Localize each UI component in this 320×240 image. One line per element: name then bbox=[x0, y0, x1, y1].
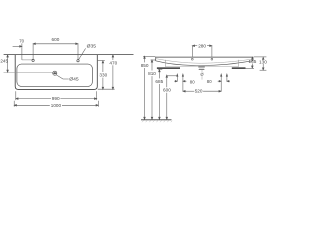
dimension 520 bbox=[183, 90, 221, 92]
svg-text:Ø35: Ø35 bbox=[87, 44, 97, 49]
svg-text:520: 520 bbox=[195, 89, 203, 94]
dimension 600 (height) bbox=[166, 75, 177, 119]
centerline wall-to-drain (245 reference) bbox=[4, 71, 53, 73]
svg-text:330: 330 bbox=[99, 73, 107, 78]
basin outer outline (plan view) bbox=[15, 55, 97, 90]
svg-text:600: 600 bbox=[163, 88, 171, 93]
drain symbol Ø (front view) bbox=[201, 73, 204, 76]
deck shelf line (plan view) bbox=[22, 59, 32, 61]
mounting bracket right (front view) bbox=[232, 67, 246, 69]
basin inner profile (front view) bbox=[156, 59, 253, 64]
dimension 990 (plan bottom) bbox=[16, 91, 97, 100]
dimension 130 (front right) bbox=[254, 57, 267, 70]
basin rim line (front view) bbox=[156, 56, 253, 58]
svg-text:80: 80 bbox=[207, 79, 212, 84]
dimension 330 (plan right) bbox=[98, 61, 105, 90]
back body right edge (front view) bbox=[238, 60, 240, 67]
svg-text:470: 470 bbox=[109, 60, 117, 65]
drain Ø45 (plan) bbox=[53, 71, 57, 75]
dimension 245 (left vertical) bbox=[7, 55, 9, 73]
valve position arrows (4 pipe stubs) bbox=[177, 74, 228, 91]
basin inner bowl (plan view) bbox=[17, 64, 93, 86]
dimension 470 (plan right) bbox=[98, 55, 115, 90]
svg-text:245: 245 bbox=[0, 58, 8, 63]
basin underside silhouette (front view) bbox=[156, 61, 253, 66]
wall line (plan view) bbox=[4, 54, 134, 56]
dimension 80 left bbox=[174, 80, 186, 82]
back body bottom edge (front view) bbox=[165, 66, 238, 68]
dimension 850 (height) bbox=[143, 56, 156, 119]
svg-text:990: 990 bbox=[52, 96, 60, 101]
svg-text:810: 810 bbox=[148, 71, 156, 76]
svg-text:70: 70 bbox=[19, 38, 24, 43]
mounting bracket left (front view) bbox=[157, 67, 180, 69]
floor line bbox=[141, 119, 172, 121]
tap hole right Ø35 (plan) bbox=[77, 60, 79, 62]
dimension 810 (height) bbox=[151, 60, 156, 120]
dimension 80 right bbox=[218, 80, 230, 82]
dimension 1000 (plan bottom) bbox=[14, 101, 98, 107]
svg-text:165: 165 bbox=[249, 59, 257, 64]
tap holes (front view) bbox=[191, 58, 193, 60]
svg-text:600: 600 bbox=[52, 37, 60, 42]
svg-text:Ø45: Ø45 bbox=[69, 77, 79, 82]
tap hole left (plan) bbox=[32, 59, 34, 61]
floor hatching bbox=[142, 120, 172, 122]
dimension 165 (front right) bbox=[244, 57, 254, 68]
svg-text:130: 130 bbox=[259, 59, 267, 64]
drain centerline (front view) bbox=[201, 70, 203, 73]
svg-text:80: 80 bbox=[190, 79, 195, 84]
svg-text:685: 685 bbox=[155, 79, 163, 84]
drain flange (front view) bbox=[198, 66, 205, 67]
svg-text:850: 850 bbox=[141, 63, 149, 68]
svg-text:280: 280 bbox=[198, 43, 206, 48]
dimension 685 (height) bbox=[158, 70, 162, 120]
svg-text:1000: 1000 bbox=[51, 103, 62, 108]
back body left edge (front view) bbox=[164, 60, 166, 67]
basin side edges (front view) bbox=[156, 57, 253, 61]
